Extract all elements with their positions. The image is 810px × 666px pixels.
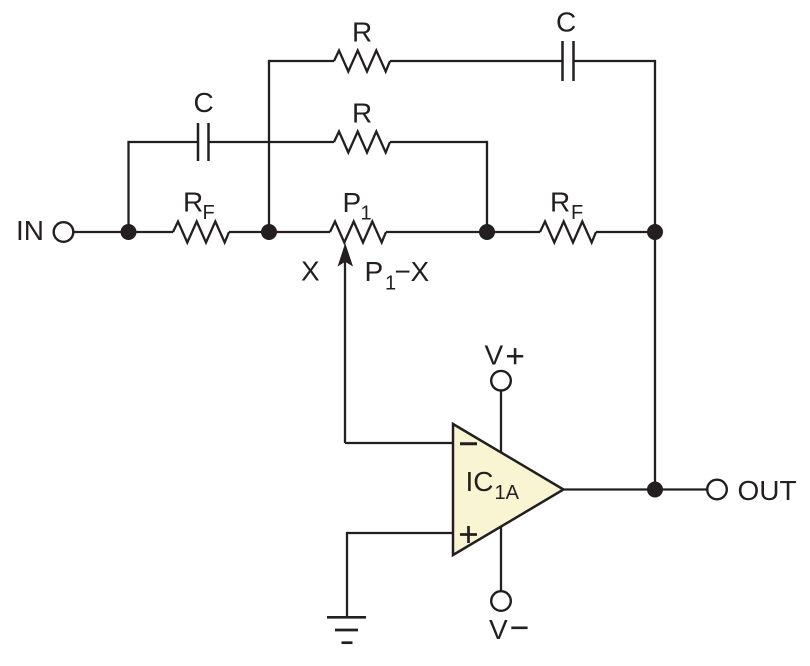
svg-text:IC: IC [466,466,494,497]
resistor R (middle) [334,132,390,153]
svg-text:C: C [556,7,576,38]
wire P1 to RF right [386,231,540,233]
wire vertical x=269 (top wire down to main node) [268,60,270,232]
terminal V- circle [491,591,511,611]
wire vertical x=487 (second row down to main node) [486,141,488,232]
node dot at x=487 [479,224,495,240]
svg-text:IN: IN [16,215,44,246]
op-amp minus sign [460,442,477,445]
wire R middle to right drop [390,141,487,143]
wire vertical right (top corner down to output node) [654,60,656,490]
svg-text:R: R [183,187,203,218]
wire top left segment [269,60,334,62]
svg-text:R: R [352,17,372,48]
wire second row left [129,141,198,143]
arrowhead of P1 wiper [338,243,353,267]
wire RF right to output node [596,231,655,233]
svg-text:C: C [194,87,214,118]
wire C left to R middle [210,141,335,143]
wire non-inverting down to ground [346,532,348,617]
resistor RF (left) [173,222,229,243]
wire main left (IN to RF) [74,231,173,233]
terminal V+ circle [491,371,511,391]
svg-text:P: P [343,187,362,218]
svg-text:F: F [203,202,215,224]
terminal OUT circle [707,480,727,500]
node dot at output [647,482,663,498]
wire V- vertical [500,526,502,591]
wire wiper vertical (arrow shaft) [344,252,346,443]
svg-text:F: F [571,202,583,224]
svg-text:1: 1 [361,203,372,225]
potentiometer P1 [330,222,386,243]
node dot at IN branch [121,224,137,240]
svg-text:1A: 1A [495,482,520,504]
capacitor C (top right) plates [561,41,564,81]
wire non-inverting input horizontal [347,532,453,534]
svg-text:−: − [395,256,411,287]
wire RF to P1 [229,231,330,233]
op-amp plus sign [460,526,477,543]
wire output (op-amp to OUT) [563,488,707,490]
svg-text:OUT: OUT [738,475,797,506]
svg-text:R: R [352,98,372,129]
svg-text:R: R [550,187,570,218]
wire C top to right corner [574,60,655,62]
ground symbol [327,617,366,642]
op-amp IC1A triangle [453,424,564,555]
capacitor C (left) plates [197,123,200,161]
node dot at x=655 main wire [647,224,663,240]
node dot at x=269 [261,224,277,240]
wire inverting input horizontal [345,442,453,444]
resistor RF (right) [540,222,596,243]
wire vertical left (C branch down to IN node) [127,141,129,232]
svg-text:X: X [301,256,320,287]
svg-text:X: X [411,256,430,287]
terminal IN circle [54,222,74,242]
wire V+ vertical [500,391,502,453]
svg-text:P: P [365,256,384,287]
wire R top to C top [390,60,562,62]
resistor R (top) [334,51,390,72]
svg-text:V: V [489,614,508,645]
svg-text:V: V [485,340,504,371]
